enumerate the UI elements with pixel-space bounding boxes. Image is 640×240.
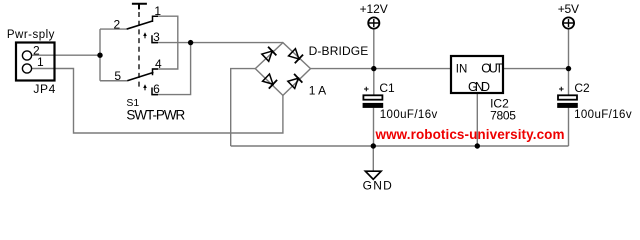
svg-text:4: 4	[155, 57, 162, 71]
svg-text:D-BRIDGE: D-BRIDGE	[309, 44, 369, 58]
svg-text:2: 2	[114, 17, 121, 31]
svg-text:GND: GND	[468, 80, 490, 94]
svg-text:C2: C2	[574, 81, 590, 95]
svg-text:SWT-PWR: SWT-PWR	[126, 107, 185, 122]
svg-text:Pwr-sply: Pwr-sply	[7, 29, 55, 41]
svg-text:1: 1	[154, 4, 161, 18]
svg-text:1 A: 1 A	[309, 83, 327, 97]
svg-text:www.robotics-university.com: www.robotics-university.com	[375, 127, 565, 142]
svg-text:GND: GND	[363, 179, 393, 193]
svg-text:100uF/16v: 100uF/16v	[380, 109, 438, 121]
svg-text:OUT: OUT	[481, 62, 503, 76]
svg-text:100uF/16v: 100uF/16v	[574, 109, 632, 121]
svg-text:+12V: +12V	[360, 2, 388, 16]
svg-text:JP4: JP4	[33, 82, 55, 96]
svg-text:5: 5	[114, 69, 121, 83]
svg-text:+5V: +5V	[558, 2, 579, 16]
svg-text:6: 6	[153, 82, 160, 96]
svg-text:7805: 7805	[490, 109, 516, 123]
svg-text:3: 3	[153, 30, 160, 44]
svg-text:1: 1	[37, 55, 44, 69]
svg-text:IN: IN	[456, 64, 468, 76]
svg-text:C1: C1	[379, 81, 395, 95]
